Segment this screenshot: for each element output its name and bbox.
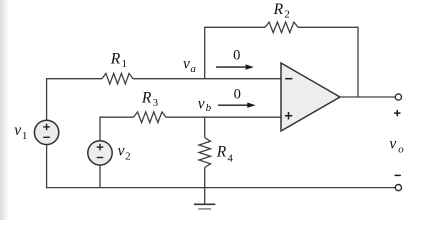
op-amp U1 <box>281 63 340 131</box>
output plus sign <box>394 110 400 116</box>
source v2 <box>88 141 112 165</box>
svg-text:1: 1 <box>22 130 28 142</box>
svg-text:R: R <box>216 144 227 161</box>
wire: R2 row left segment <box>204 26 265 28</box>
resistor R4 <box>199 138 211 168</box>
svg-text:v: v <box>118 143 125 160</box>
resistor R1 <box>102 73 133 84</box>
svg-text:0: 0 <box>233 48 240 64</box>
ground <box>194 204 215 209</box>
wire: R1 row left segment <box>46 78 102 80</box>
wire: v_a vertical up to R2 row <box>204 27 206 78</box>
svg-text:v: v <box>183 55 190 72</box>
svg-text:4: 4 <box>227 153 233 165</box>
svg-text:b: b <box>206 102 212 114</box>
current arrow (upper) <box>216 64 254 69</box>
svg-text:v: v <box>389 136 396 153</box>
wire: R3 row right segment to op-amp plus input <box>166 116 281 118</box>
wire: v2 bottom to rail <box>99 165 101 187</box>
svg-text:v: v <box>198 96 205 113</box>
svg-text:3: 3 <box>153 97 159 109</box>
svg-text:1: 1 <box>122 58 128 70</box>
current arrow (lower) <box>218 103 255 108</box>
svg-text:a: a <box>190 63 196 75</box>
resistor R2 <box>265 22 298 33</box>
wire: R3 row left segment <box>99 116 133 118</box>
svg-text:2: 2 <box>284 8 290 20</box>
svg-text:v: v <box>14 122 21 139</box>
wire: R1 row right segment to op-amp minus input <box>133 78 281 80</box>
wire: top of v1 up to R1 row <box>46 79 48 120</box>
wire: bottom rail <box>47 187 396 189</box>
wire: v_b down to R4 <box>204 117 206 137</box>
svg-text:R: R <box>273 1 284 18</box>
wire: op-amp output to terminal <box>340 96 395 98</box>
svg-text:R: R <box>141 89 152 106</box>
wire: ground stub below rail <box>204 188 206 205</box>
wire: v1 bottom to rail <box>46 145 48 188</box>
wire: feedback vertical from R2 down to output <box>357 27 359 97</box>
svg-text:0: 0 <box>234 87 241 103</box>
terminal: output - <box>395 185 401 191</box>
resistor R3 <box>134 112 167 123</box>
wire: R2 row right segment <box>298 26 358 28</box>
output minus sign <box>395 174 401 176</box>
wire: R4 down to bottom rail <box>204 168 206 188</box>
svg-text:2: 2 <box>125 150 131 162</box>
svg-text:R: R <box>110 51 121 68</box>
terminal: output + <box>395 94 401 100</box>
wire: v2 top up to R3 row <box>99 117 101 140</box>
source v1 <box>34 120 58 144</box>
svg-text:o: o <box>398 144 404 156</box>
